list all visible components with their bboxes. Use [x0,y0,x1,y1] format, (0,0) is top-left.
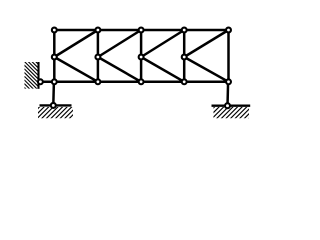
wire vertical member 3 [140,30,143,82]
wire diagonal down panel 2 [98,57,141,82]
wire diagonal up panel 2 [98,30,141,57]
wire diagonal down panel 1 [54,57,98,82]
wire vertical member 5 [227,30,230,82]
node B4 [182,79,187,84]
wire diagonal up panel 4 [184,30,228,57]
wire right support link [226,82,229,106]
left support roller circle [51,103,56,108]
node T3 [139,28,144,33]
node B3 [139,79,144,84]
left ground hatching [26,104,83,120]
wire top chord [54,29,228,32]
wire diagonal down panel 4 [184,57,228,82]
wire diagonal up panel 1 [54,30,98,57]
node M4 [182,55,187,60]
node B1 [52,79,57,84]
right support roller circle [225,103,230,108]
node T1 [52,28,57,33]
node T4 [182,28,187,33]
node M1 [52,55,57,60]
node wall pin A [38,79,43,84]
node T5 [226,28,231,33]
wire bottom chord [39,81,229,84]
node B2 [95,79,100,84]
wire vertical member 4 [183,30,186,82]
node B5 [226,79,231,84]
wire diagonal down panel 3 [141,57,184,82]
wire vertical member 2 [97,30,100,82]
node M3 [139,55,144,60]
wire left support link [52,82,55,106]
right ground hatching [201,104,263,120]
right ground line [212,104,251,106]
node M2 [95,55,100,60]
wire diagonal up panel 3 [141,30,184,57]
node T2 [95,28,100,33]
left ground line [40,104,72,106]
wall edge line [37,62,39,89]
wall hatching [0,60,64,90]
wire vertical member 1 [53,30,56,82]
